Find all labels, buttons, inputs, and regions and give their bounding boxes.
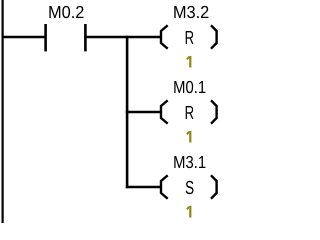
coil M3.1 left paren [161,175,168,198]
left power rail [1,0,3,223]
coil M0.1 letter R [186,106,194,119]
coil M3.2 left paren [161,25,168,48]
contact M0.2 right bar [84,24,87,51]
wire: contact to junction and coil M3.2 [85,36,161,38]
contact M0.2 left bar [44,24,47,51]
value 1 of coil M0.1 [187,131,190,143]
wire: branch to coil M3.1 [126,186,162,188]
wire: branch vertical [126,36,129,188]
wire: rail to contact M0.2 [2,36,46,38]
label M0.1 [174,81,205,93]
coil M3.2 right paren [211,25,217,48]
label M3.1 [174,156,205,168]
value 1 of coil M3.1 [187,206,190,218]
wire: branch to coil M0.1 [126,111,162,113]
coil M3.2 letter R [186,31,194,44]
label M3.2 [174,6,208,18]
label M0.2 [49,6,83,18]
value 1 of coil M3.2 [187,56,190,68]
coil M0.1 left paren [161,100,168,123]
coil M3.1 right paren [211,175,217,198]
coil M3.1 letter S [186,181,194,194]
coil M0.1 right paren [211,100,217,123]
